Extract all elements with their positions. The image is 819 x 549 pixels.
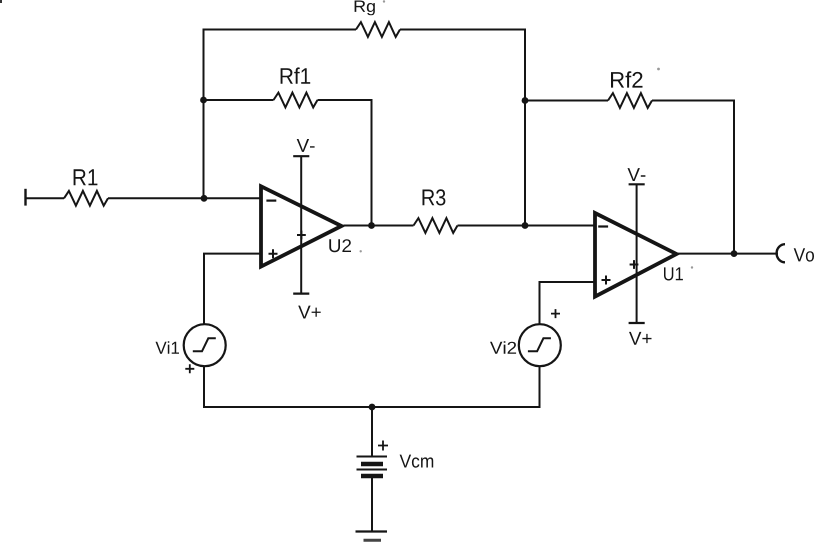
wire U1 output [678,253,779,255]
U2 minus input marker [266,200,276,202]
resistor Rg [356,22,400,37]
U1 supply rail [636,184,638,323]
Vi1 plus marker [185,364,194,373]
node R1 / inverting input junction [201,195,208,202]
speckle artifacts [360,0,694,268]
input terminal [24,189,26,206]
wire top rail left segment [204,30,357,199]
node Rf2 left junction [522,97,529,104]
label R3 [423,189,446,205]
label V- of U1 [628,168,646,181]
label V+ of U2 [298,306,321,319]
label Vo [794,248,814,261]
U1 plus input marker [602,276,611,285]
node U1 output junction [731,250,738,257]
wire Rf1 right down to U2 output [318,100,372,226]
Vi1 waveform symbol [193,338,216,351]
output terminal Vo [777,244,785,262]
U1 minus input marker [598,225,608,227]
U1 V- bar [629,183,645,185]
node bottom rail junction [369,404,376,411]
wire U1 noninverting input [540,282,595,324]
label Vcm [400,455,434,468]
node U2 output junction [368,222,375,229]
U1 V+ bar [629,322,645,324]
wire Rf2 left [525,100,608,102]
resistor Rf1 [274,93,318,108]
label Vi1 [156,341,180,354]
label V+ of U1 [629,332,652,345]
resistor R1 [64,191,108,206]
label Rg [355,1,375,16]
label U2 [329,239,351,252]
U2 plus supply marker [297,231,306,240]
label Rf1 [281,67,311,83]
op-amp U2 [261,186,342,266]
U2 V+ bar [293,293,309,295]
ground [356,532,388,541]
wire top rail right segment [400,30,525,226]
U2 V- bar [293,155,309,157]
label Rf2 [611,71,643,87]
wire Rf1 left [204,99,274,101]
label R1 [74,169,98,185]
label Vi2 [490,341,516,354]
U1 plus supply marker [630,260,639,269]
wire R3 to U1 inverting input [458,225,595,227]
corner artifact [0,0,2,3]
wire Vcm branch [371,407,373,457]
Vcm plus marker [378,441,388,451]
Vi2 plus marker [551,309,560,318]
node Rf1 left junction [200,97,207,104]
wire battery to ground [371,478,373,532]
wire U2 output to R3 [344,225,414,227]
source Vi2 [519,324,561,366]
wire input to R1 [26,197,65,199]
label U1 [664,267,683,280]
wire Rf2 right down to output node [652,101,734,254]
resistor Rf2 [608,93,652,108]
resistor R3 [414,218,458,233]
wire bottom common rail [204,367,540,407]
Vi2 waveform symbol [528,338,551,351]
node R3 / U1 inverting junction [522,222,529,229]
label V- of U2 [297,139,315,152]
op-amp U1 [595,213,677,297]
battery Vcm [357,457,388,477]
U2 plus input marker [269,249,278,258]
node junction dots [200,97,737,411]
U2 supply rail [300,156,302,293]
wire R1 to U2 inverting input [108,197,260,199]
wire U2 noninverting input [204,254,260,324]
source Vi1 [184,324,226,366]
